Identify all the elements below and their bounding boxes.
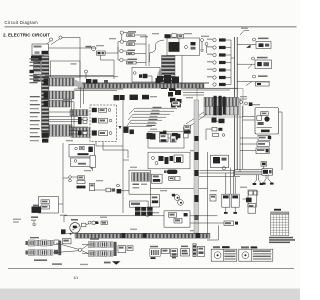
ladder connector: [124, 127, 134, 135]
B columns: [114, 242, 133, 256]
horn H1: [127, 31, 146, 36]
junction lower blobs: [212, 118, 225, 124]
connector assembly row B1: [82, 242, 113, 248]
thin pair above run1: [45, 75, 118, 77]
fuel sender stack: [243, 191, 258, 213]
switch box K3: [256, 148, 269, 154]
margin label: [13, 219, 21, 223]
arrow label: [104, 262, 111, 264]
cross wires mid-right: [197, 168, 241, 194]
controller lower box CT2: [130, 201, 149, 207]
small box S-D: [210, 194, 216, 201]
harness ladder wires: [126, 108, 177, 130]
junction diagonals: [186, 112, 207, 126]
hour meter gauge: [70, 219, 81, 235]
starter relay R2: [184, 125, 191, 133]
controller box CT1: [129, 170, 151, 194]
solenoid box S-C: [248, 190, 256, 207]
accel sensor box: [39, 197, 59, 214]
sender coupler b: [101, 221, 107, 224]
branch bundle B-left2: [49, 125, 72, 136]
color code table: [271, 212, 289, 235]
small box M2: [90, 183, 95, 190]
light switch SW-L: [120, 40, 128, 43]
head lamp box HL: [261, 162, 267, 169]
connector block CN1: [31, 56, 44, 61]
lever switch LS1: [69, 176, 86, 189]
wires bundle to relay box: [63, 100, 88, 137]
aux lamp L3: [127, 59, 146, 64]
rear connector box: [262, 169, 272, 176]
wire key loop: [62, 38, 80, 84]
header rule: [5, 26, 297, 28]
key switch contact ST: [46, 38, 53, 45]
assembly bottom labels: [52, 263, 88, 265]
lower section rail: [150, 187, 208, 189]
alternator A1: [165, 34, 184, 38]
connector D3 on bus: [130, 95, 138, 100]
legend box 1 header: [213, 246, 230, 248]
connector D1 on bus: [114, 95, 120, 100]
flasher group WL2: [237, 57, 271, 69]
main vertical bus pair: [231, 37, 237, 176]
collector verticals: [146, 35, 149, 66]
connector D2 on bus: [120, 95, 125, 100]
feed coupler a: [78, 117, 87, 121]
wire accel to feeder: [59, 203, 64, 205]
engine relay box upper: [148, 131, 184, 148]
bus junction cluster (hatched) row1: [204, 97, 239, 106]
harness run W4: [48, 100, 70, 107]
lower bus connectors: [122, 233, 201, 238]
wire main switch to fuse: [49, 47, 97, 49]
lower cluster L1: [150, 246, 178, 257]
relay unit box RU2: [71, 158, 95, 169]
wire alternator leads: [150, 39, 180, 62]
ground symbols bottom left: [31, 216, 38, 225]
solenoid box S-B: [231, 194, 239, 207]
main harness bus (horizontal): [74, 83, 209, 88]
svg-text:2. ELECTRIC CIRCUIT: 2. ELECTRIC CIRCUIT: [3, 32, 50, 37]
rear lamp group WL3: [237, 75, 270, 86]
top box near junction: [172, 101, 180, 106]
short feed wires: [49, 112, 88, 122]
gauge terminal: [61, 229, 66, 234]
connector row under controller: [135, 207, 153, 216]
engine connector box ENG: [167, 38, 200, 56]
feed coupler c: [78, 131, 87, 135]
top rail of lower section: [64, 216, 218, 222]
right enclosure edge: [207, 152, 209, 233]
branch run W5: [70, 110, 88, 116]
starter cable tag: [190, 221, 238, 240]
connector strip CN2 (vertical bundle): [42, 56, 49, 132]
relay symbol near bus: [85, 70, 88, 79]
svg-text:1/1: 1/1: [74, 276, 79, 280]
feeder poles x80-83: [81, 88, 84, 108]
relay unit box RU1: [69, 145, 95, 157]
wire box to bus: [181, 56, 183, 88]
harness run W3: [48, 91, 74, 99]
assembly junction wires: [56, 243, 89, 254]
footer rule: [8, 268, 294, 270]
connector assembly row B2: [82, 251, 113, 257]
legend box 2: [239, 249, 273, 261]
relay box tail wires: [96, 142, 128, 159]
lower main bus (hatched): [75, 234, 210, 239]
wire lever to feeder: [63, 177, 69, 179]
harness column CN4: [34, 74, 41, 81]
wire main switch down: [39, 55, 41, 56]
bus tail wires: [181, 88, 238, 95]
main switch SW1: [32, 44, 49, 55]
ladder labels: [147, 107, 162, 126]
accel actuator: [32, 205, 42, 213]
wiper switch SW-W: [120, 49, 128, 52]
combination unit box U1: [255, 108, 279, 135]
wire horn branch: [118, 47, 120, 60]
legend box 1: [211, 249, 237, 261]
sensor S1: [201, 36, 209, 53]
inter-connector parts: [54, 239, 82, 256]
bundle left taper: [155, 68, 162, 85]
wiper motor L2: [127, 50, 146, 55]
pressure switch pair: [95, 184, 130, 193]
thin pair under bus: [74, 89, 123, 91]
bus junction cluster row2: [204, 106, 239, 115]
vertical harness band: [194, 100, 199, 233]
rear harness band: [235, 169, 273, 174]
junction dark columns: [214, 96, 226, 116]
row B label: [90, 238, 99, 239]
lamp column collector wire: [230, 40, 232, 85]
feed coupler b: [78, 120, 87, 124]
lamp sockets right of junction: [239, 99, 253, 106]
ground lug G1: [30, 70, 34, 73]
fuel level resistor: [82, 223, 90, 227]
right feeder wires: [240, 99, 282, 172]
wire switch drop: [121, 34, 123, 40]
connector assembly row A1: [26, 240, 57, 246]
wire label column lower: [30, 96, 40, 141]
scattered wire labels: [60, 33, 260, 231]
connector D4 on bus: [142, 95, 149, 100]
work lamp group WL1: [237, 38, 271, 49]
strip end connector: [42, 132, 49, 142]
harness column CN3: [34, 61, 41, 72]
rear lamp drops: [253, 175, 274, 185]
sender coupler a: [88, 221, 98, 224]
relay box RB1: [90, 105, 122, 142]
hook wire: [240, 31, 249, 36]
junction tail blobs: [170, 98, 182, 108]
motor pair circles: [172, 194, 184, 206]
mid components row: [147, 132, 178, 140]
battery box lower: [146, 211, 190, 227]
solenoid wires: [224, 173, 237, 214]
solenoid box S-A: [222, 194, 230, 207]
sender box: [151, 195, 160, 207]
wire battery down: [101, 55, 115, 79]
fusible link F1: [97, 51, 106, 55]
top corner label: [241, 28, 248, 29]
fuse holder top box: [184, 128, 189, 138]
junction cluster J1: [156, 75, 182, 97]
bottom icon marks: [151, 257, 177, 259]
aux switch SW-X: [120, 58, 128, 61]
run taper: [74, 79, 83, 88]
lower cluster L2: [181, 244, 205, 257]
aux switch pair below junction: [206, 127, 225, 140]
lower bus top edge: [66, 232, 210, 234]
starter relay box SRB: [132, 67, 160, 82]
junction outline box: [197, 89, 243, 118]
connector C3: [44, 92, 49, 99]
regulator R1: [200, 39, 204, 52]
aux boxes mid: [169, 176, 180, 180]
junction blocks on bus: [86, 79, 108, 84]
arrow marker: [112, 261, 121, 265]
connector C4: [44, 101, 49, 107]
table notes: [269, 237, 295, 243]
link wire controller: [123, 159, 129, 161]
wire bundle top connector: [169, 42, 180, 52]
engine relay box lower: [148, 152, 190, 169]
svg-text:Circuit Diagram: Circuit Diagram: [5, 20, 39, 25]
feeder x64 vertical: [62, 143, 64, 213]
row A label: [30, 237, 39, 238]
long vertical feeder x123: [122, 96, 124, 214]
lamp L1: [127, 40, 146, 45]
small box M1: [90, 156, 95, 172]
assembly label: [34, 259, 47, 261]
indicator lamp column: [207, 38, 231, 86]
harness run W2: [48, 78, 74, 86]
switch box K1: [258, 135, 271, 140]
starter motor cylinder: [164, 170, 177, 174]
engine unit box EB: [211, 155, 229, 170]
battery B1: [86, 46, 96, 51]
color code table title: [274, 209, 281, 211]
horn switch SW-H: [120, 31, 128, 34]
connector C2: [44, 79, 49, 86]
branch bundle B-left2 extension: [71, 128, 90, 138]
legend box 2 header: [241, 246, 257, 248]
key switch contact B: [51, 36, 62, 45]
glow controller box: [152, 174, 163, 183]
connector assembly row A2: [26, 250, 57, 256]
harness bundle W1 (vertical): [162, 56, 176, 84]
bottom scan band: [0, 289, 300, 300]
wire fuse to horn feed: [105, 42, 120, 53]
switch box K2: [257, 142, 269, 147]
wire label column upper: [30, 58, 39, 83]
cab enclosure box: [51, 61, 81, 77]
